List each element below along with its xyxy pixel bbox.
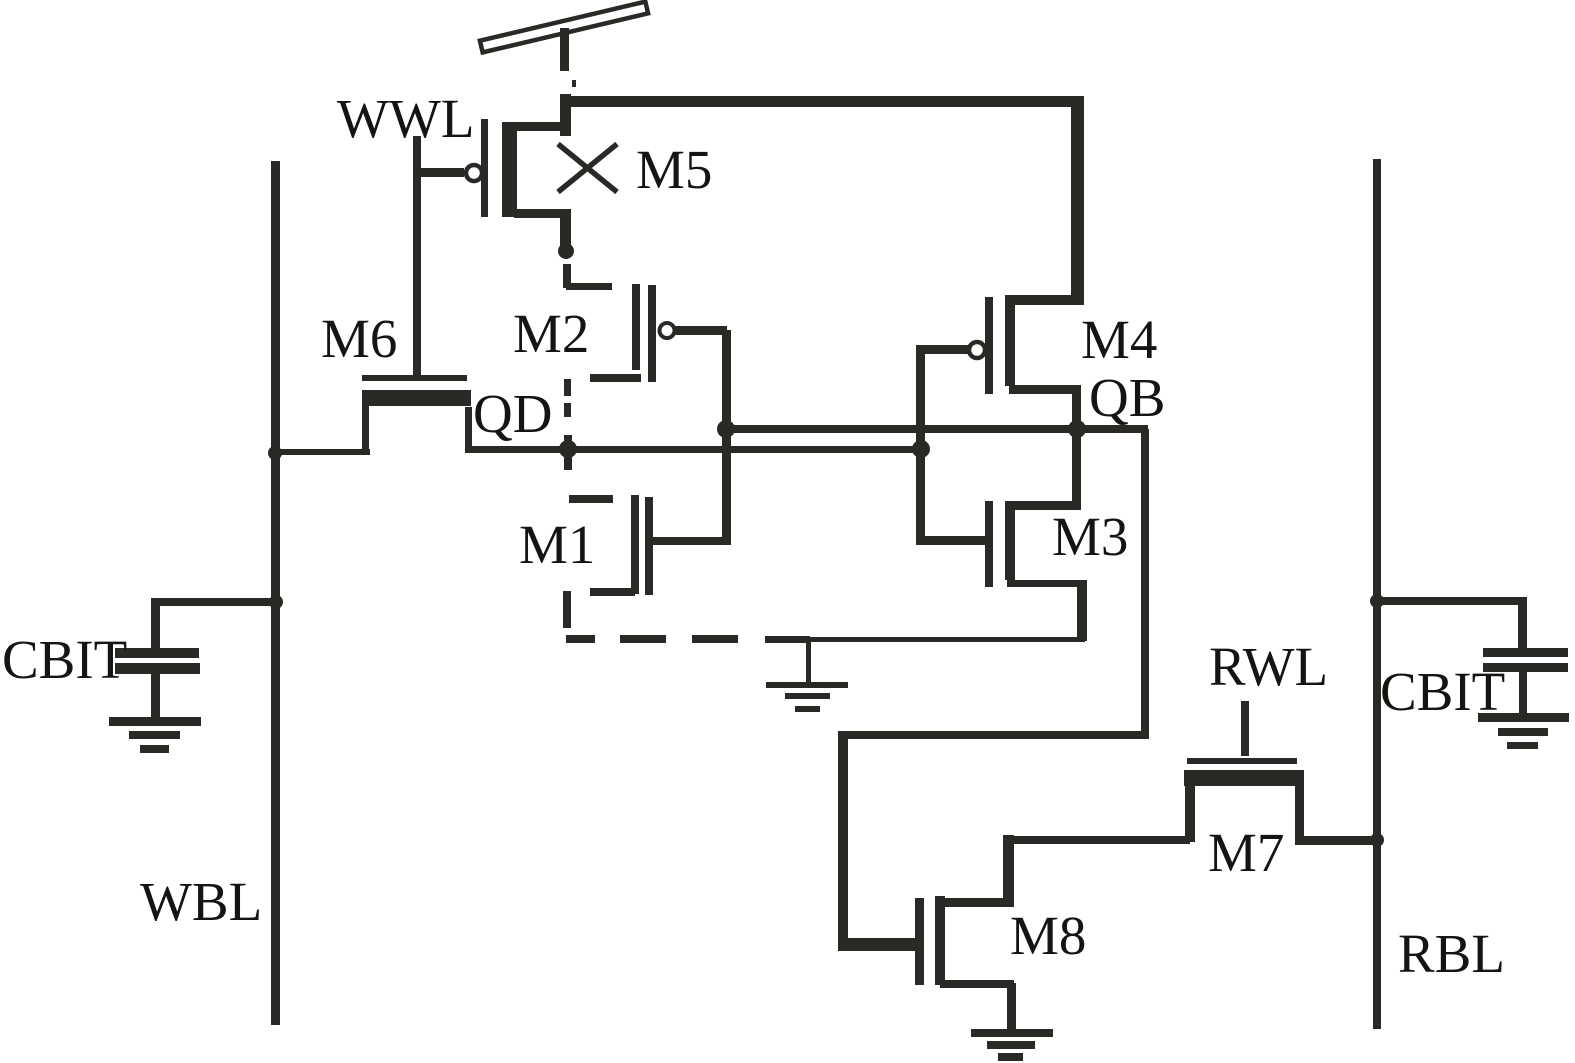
svg-text:WWL: WWL [337, 88, 474, 149]
M4 gate wire [916, 345, 968, 354]
M2 drain lead [590, 374, 641, 382]
svg-text:M6: M6 [321, 308, 397, 369]
dashed wire segment A (below M5 source dot) [563, 264, 571, 288]
dashed wire segment C [564, 403, 571, 417]
wire M1 M3 sources to ground [808, 637, 1085, 642]
wire top rail left stub [560, 94, 571, 136]
label M4 [1081, 309, 1157, 370]
svg-text:M4: M4 [1081, 309, 1157, 370]
svg-text:M1: M1 [519, 514, 595, 575]
junction dot M6 on WBL [268, 446, 282, 460]
label M8 [1010, 905, 1086, 966]
junction dot QB left [717, 420, 735, 438]
M8 drain lead [940, 835, 1014, 907]
M1 drain lead dash [569, 495, 613, 503]
transistor M7 gate bar [1187, 758, 1297, 764]
transistor M1 channel bar [631, 495, 639, 594]
CBIT right lead to ground [1519, 672, 1527, 716]
wire dashed gap tick below VDD stem [572, 80, 576, 87]
wire QB down vertical [1141, 429, 1149, 736]
wire node QB horizontal [724, 425, 1148, 433]
M8 source lead [940, 980, 1016, 1030]
svg-text:CBIT: CBIT [1380, 661, 1505, 722]
label M3 [1052, 506, 1128, 567]
capacitor CBIT left bottom plate [115, 663, 200, 674]
VDD supply bar (slanted) [480, 2, 648, 53]
M1 gate wire [653, 537, 723, 545]
transistor M2 channel bar [632, 284, 640, 370]
dashed wire segment G [692, 635, 738, 643]
svg-text:M7: M7 [1208, 822, 1284, 883]
dashed wire segment B [564, 379, 571, 396]
wire RBL to CBIT capacitor [1377, 597, 1527, 651]
M6 drain lead [465, 407, 472, 453]
svg-text:QB: QB [1089, 367, 1165, 428]
label WBL [140, 871, 262, 932]
transistor M7 channel bar [1184, 770, 1304, 786]
wire RBL vertical [1373, 159, 1381, 1029]
M3 drain lead [1008, 430, 1081, 510]
svg-text:RBL: RBL [1398, 923, 1505, 984]
transistor M5 channel bar [502, 122, 517, 217]
dashed wire segment F [620, 635, 666, 643]
wire WWL to M5 gate [420, 168, 464, 177]
M5 gate bubble [466, 165, 482, 181]
wire QB feedback vertical to M1 M2 gates [722, 330, 731, 545]
dashed wire segment D (below M1 source) [563, 591, 571, 628]
label RBL [1398, 923, 1505, 984]
wire solid end of dashed run [765, 636, 810, 643]
svg-text:RWL: RWL [1209, 636, 1328, 697]
transistor M8 gate bar [915, 898, 924, 985]
M4 source lead [1009, 385, 1081, 430]
transistor M4 channel bar [1005, 295, 1015, 386]
ground (inverter) [766, 682, 848, 712]
capacitor CBIT right bottom plate [1483, 663, 1568, 672]
M2 gate bubble [660, 323, 675, 338]
wire QD feedback vertical to M3 M4 gates [916, 345, 925, 545]
junction dot QB right [1068, 420, 1086, 438]
wire node QD horizontal [468, 446, 922, 453]
M4 drain lead [1006, 295, 1083, 305]
wire right rail vertical to M4 drain [1071, 96, 1084, 305]
transistor M3 gate bar [985, 501, 993, 587]
transistor M6 channel bar [362, 390, 471, 406]
M1 source lead [590, 588, 635, 596]
svg-text:M8: M8 [1010, 905, 1086, 966]
M3 source lead [1007, 580, 1087, 641]
transistor M8 channel bar [935, 896, 945, 985]
ground (M8) [971, 1029, 1053, 1061]
junction dot QD to M3 M4 gates [912, 440, 930, 458]
svg-text:M2: M2 [513, 303, 589, 364]
label WWL [337, 88, 474, 149]
junction dot QD [559, 435, 577, 470]
M8 gate wire [839, 938, 919, 951]
label QD [473, 383, 552, 444]
capacitor CBIT right top plate [1483, 648, 1568, 657]
svg-text:QD: QD [473, 383, 552, 444]
wire WWL vertical [413, 136, 421, 377]
M3 gate wire [916, 536, 990, 545]
transistor M1 gate bar [645, 497, 653, 595]
ground (CBIT right) [1478, 713, 1569, 749]
wire WBL vertical [271, 161, 280, 1025]
transistor M3 channel bar [1005, 501, 1015, 580]
label M7 [1208, 822, 1284, 883]
label M1 [519, 514, 595, 575]
svg-text:M3: M3 [1052, 506, 1128, 567]
label M2 [513, 303, 589, 364]
CBIT left lead to ground [151, 674, 160, 719]
label QB [1089, 367, 1165, 428]
M4 gate bubble [969, 342, 985, 358]
X mark over M5 [558, 144, 617, 192]
junction dot CBIT on RBL [1370, 594, 1384, 608]
junction dot M5 source [558, 243, 574, 259]
svg-text:WBL: WBL [140, 871, 262, 932]
junction dot CBIT on WBL [269, 595, 283, 609]
M7 drain lead to RBL [1295, 786, 1378, 845]
M5 drain lead [514, 122, 566, 131]
M5 source lead [514, 209, 571, 254]
dashed wire segment E (bottom run) [566, 635, 595, 643]
wire top rail horizontal [560, 96, 1084, 107]
ground (CBIT left) [109, 717, 201, 753]
transistor M4 gate bar [985, 297, 993, 394]
transistor M2 gate bar [648, 285, 656, 382]
transistor M6 gate bar [362, 375, 467, 381]
svg-text:M5: M5 [636, 139, 712, 200]
ground stem (inverter ground) [806, 641, 811, 683]
wire WBL to CBIT capacitor [151, 598, 276, 650]
label CBIT left [2, 629, 127, 690]
M7 source lead to M8 [1007, 785, 1195, 844]
RWL gate stub [1241, 701, 1249, 756]
svg-text:CBIT: CBIT [2, 629, 127, 690]
label M6 [321, 308, 397, 369]
junction dot M7 on RBL [1370, 833, 1384, 847]
M2 gate wire [675, 326, 727, 335]
transistor M5 gate bar [481, 119, 488, 217]
wire QB to M8 horizontal [842, 731, 1149, 739]
wire QB to M8 left vertical [838, 731, 848, 951]
capacitor CBIT left top plate [115, 648, 199, 658]
label CBIT right [1380, 661, 1505, 722]
M2 source lead dash [566, 283, 612, 290]
wire VDD stem [560, 28, 569, 71]
label RWL [1209, 636, 1328, 697]
label M5 [636, 139, 712, 200]
M6 source lead to WBL [272, 390, 370, 455]
